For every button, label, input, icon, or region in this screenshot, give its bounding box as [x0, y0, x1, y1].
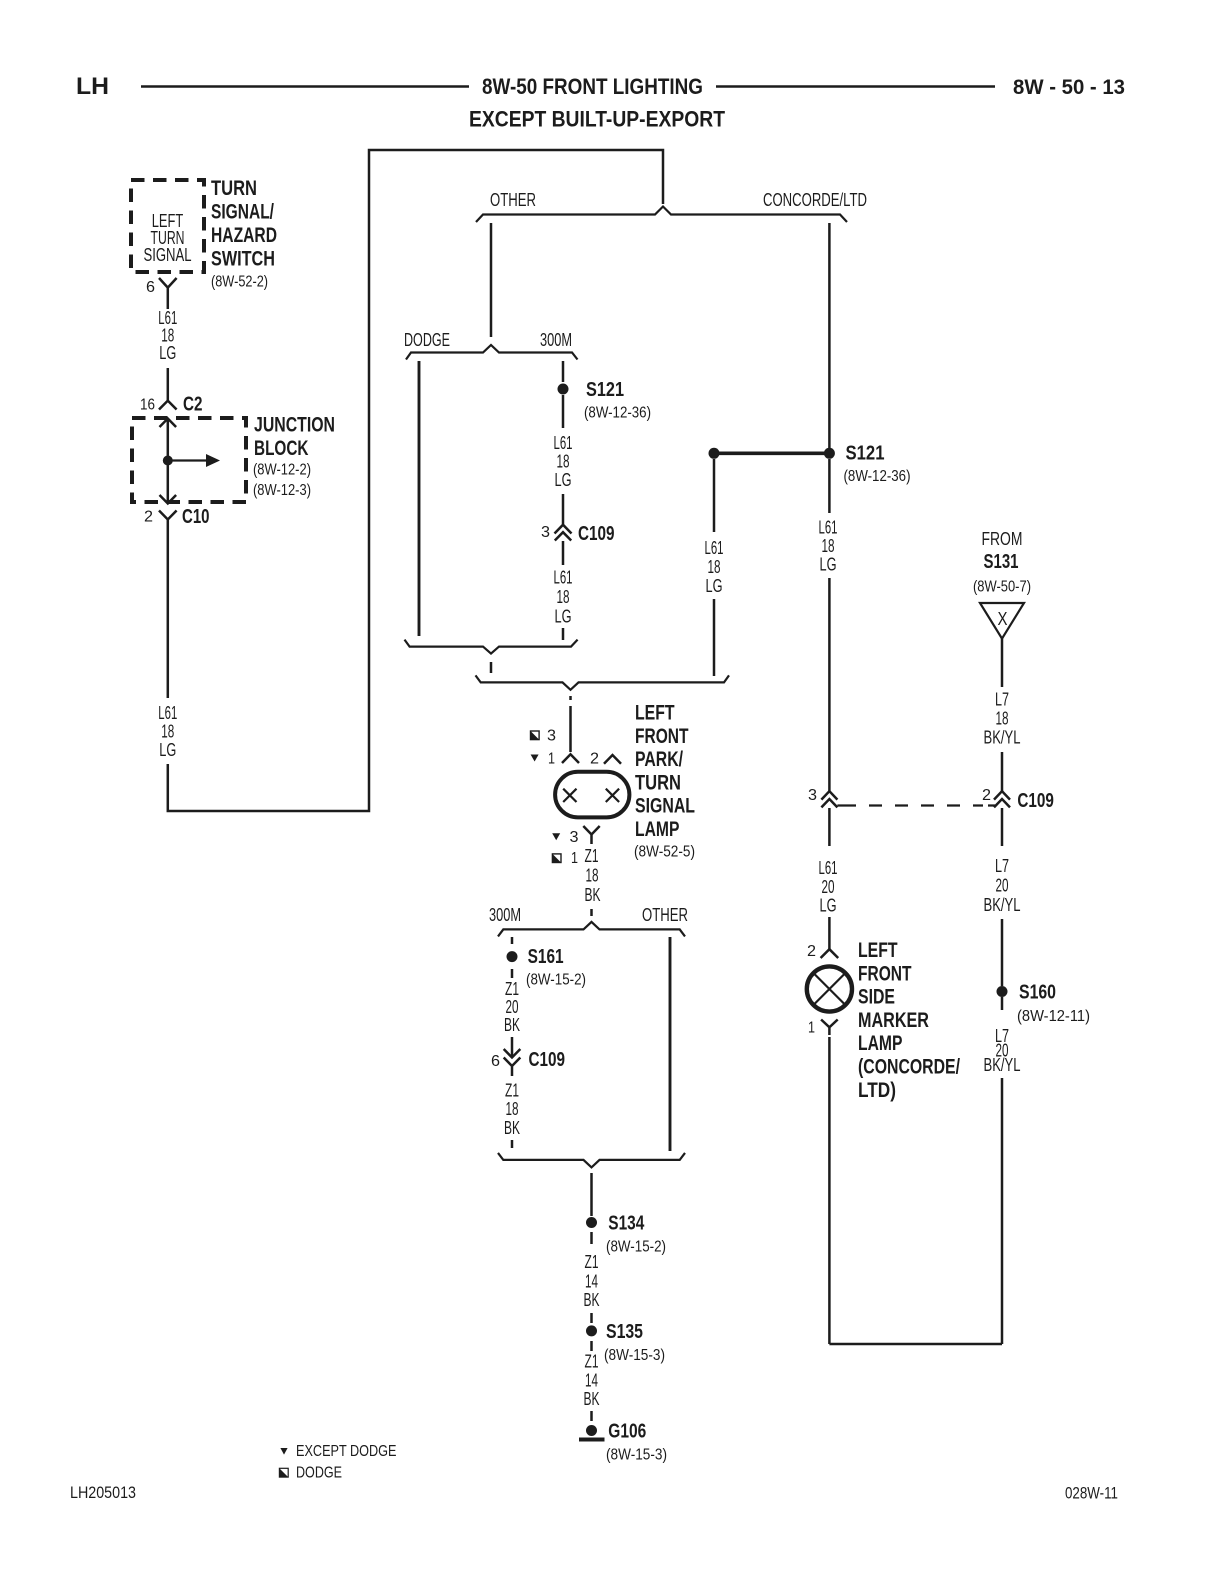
svg-text:FRONT: FRONT — [858, 962, 912, 985]
svg-text:14: 14 — [585, 1272, 598, 1292]
wire to S160 — [1001, 919, 1004, 986]
wire stub below pin 6 — [167, 300, 170, 309]
svg-text:HAZARD: HAZARD — [211, 224, 277, 247]
svg-text:EXCEPT BUILT-UP-EXPORT: EXCEPT BUILT-UP-EXPORT — [469, 107, 725, 132]
svg-text:X: X — [998, 609, 1008, 629]
junction block internal bus wire — [167, 419, 170, 501]
park/turn lamp body stadium — [555, 772, 629, 818]
svg-text:LG: LG — [820, 896, 837, 916]
svg-text:S161: S161 — [528, 946, 564, 968]
wire OTHER branch — [490, 223, 493, 337]
svg-text:028W-11: 028W-11 — [1065, 1484, 1118, 1503]
svg-text:6: 6 — [491, 1053, 500, 1070]
svg-text:SIDE: SIDE — [858, 986, 895, 1009]
svg-text:(8W-15-2): (8W-15-2) — [606, 1239, 666, 1256]
svg-text:(8W-12-36): (8W-12-36) — [584, 405, 651, 422]
svg-text:20: 20 — [822, 877, 835, 897]
fork brace split DODGE / 300M — [406, 345, 578, 360]
svg-text:C109: C109 — [529, 1049, 566, 1071]
svg-text:S160: S160 — [1019, 982, 1056, 1004]
svg-text:LEFT: LEFT — [858, 939, 898, 962]
svg-text:LH205013: LH205013 — [70, 1483, 136, 1502]
splice S121 dot (300M) — [558, 384, 569, 395]
svg-text:18: 18 — [708, 557, 721, 577]
wire dash 300M leg — [511, 937, 514, 944]
svg-text:3: 3 — [808, 787, 817, 804]
ground G106 symbol — [579, 1425, 605, 1440]
svg-text:TURN: TURN — [211, 177, 257, 200]
svg-text:L61: L61 — [819, 518, 838, 538]
svg-text:BK: BK — [504, 1118, 520, 1138]
svg-text:(8W-15-3): (8W-15-3) — [606, 1447, 667, 1464]
svg-text:L7: L7 — [995, 690, 1009, 710]
svg-text:LAMP: LAMP — [635, 818, 679, 841]
svg-text:TURN: TURN — [635, 771, 681, 794]
svg-text:C10: C10 — [182, 506, 210, 528]
wire to C109 — [562, 494, 565, 524]
wire dash below S161 — [511, 969, 514, 978]
svg-text:G106: G106 — [608, 1421, 646, 1443]
svg-text:LG: LG — [820, 555, 837, 575]
wire segment to C2 — [167, 368, 170, 400]
svg-text:(CONCORDE/: (CONCORDE/ — [858, 1056, 960, 1079]
svg-text:8W-50 FRONT LIGHTING: 8W-50 FRONT LIGHTING — [482, 74, 703, 99]
wire down to bottom run — [1001, 1078, 1004, 1344]
svg-text:3: 3 — [541, 524, 550, 541]
wire long run to C109 — [828, 578, 831, 791]
svg-text:LEFT: LEFT — [635, 702, 675, 725]
header rule right — [716, 85, 995, 88]
svg-text:BK: BK — [585, 885, 601, 905]
wire dash above brace — [562, 628, 565, 640]
svg-text:LAMP: LAMP — [858, 1032, 902, 1055]
connector C109 left double chevron — [821, 791, 837, 807]
wire dash below S135 — [590, 1341, 593, 1351]
wire dash below lamp — [590, 909, 593, 916]
park/turn lamp filament X right — [606, 789, 619, 802]
svg-text:16: 16 — [140, 397, 155, 414]
side marker lamp filament X — [813, 973, 845, 1005]
pin symbol except-dodge triangle (bottom pin 3) — [552, 833, 560, 840]
header rule left — [141, 85, 469, 88]
wire OTHER leg (lower) — [669, 937, 672, 1151]
svg-text:300M: 300M — [489, 905, 521, 925]
junction block dashed box — [132, 418, 246, 502]
off-page connector triangle — [980, 603, 1024, 639]
legend dodge square — [279, 1468, 288, 1477]
side marker lamp bulb — [807, 966, 852, 1011]
wire dash below S160 — [1001, 997, 1004, 1010]
svg-text:LH: LH — [76, 73, 109, 100]
brace gather DODGE + 300M — [405, 640, 578, 654]
brace gather group + S121 leg — [476, 675, 730, 689]
svg-text:LTD): LTD) — [858, 1079, 896, 1102]
svg-text:18: 18 — [557, 587, 570, 607]
svg-text:LG: LG — [159, 740, 176, 760]
connector C109 dashed tie line — [837, 804, 995, 806]
wire CONCORDE branch upper — [828, 223, 831, 448]
side marker pin 1 Y — [821, 1020, 838, 1036]
svg-text:1: 1 — [808, 1020, 815, 1037]
wire feed to lamp pin 1 — [569, 696, 572, 752]
svg-text:1: 1 — [571, 850, 578, 867]
junction block feed arrow — [206, 454, 220, 467]
svg-text:18: 18 — [996, 709, 1009, 729]
park/turn lamp pin 3 Y — [583, 826, 599, 844]
wire to C109 right — [1001, 752, 1004, 791]
svg-text:Z1: Z1 — [505, 1081, 519, 1101]
svg-text:S135: S135 — [606, 1321, 643, 1343]
svg-text:8W - 50 - 13: 8W - 50 - 13 — [1013, 76, 1125, 99]
svg-text:LG: LG — [555, 470, 572, 490]
svg-text:6: 6 — [146, 279, 155, 296]
park/turn lamp pin 2 chevron — [604, 755, 621, 764]
svg-text:18: 18 — [822, 536, 835, 556]
wire to lamp pin 2 — [828, 917, 831, 949]
pin 6 connector Y — [159, 278, 177, 300]
svg-text:SWITCH: SWITCH — [211, 248, 275, 271]
svg-text:(8W-12-11): (8W-12-11) — [1017, 1008, 1090, 1025]
svg-text:LG: LG — [706, 576, 723, 596]
svg-text:(8W-15-2): (8W-15-2) — [526, 972, 586, 989]
svg-text:DODGE: DODGE — [296, 1465, 342, 1482]
svg-text:(8W-12-2): (8W-12-2) — [253, 462, 311, 479]
wire below C109 left — [828, 808, 831, 846]
fork brace split 300M / OTHER — [498, 922, 685, 937]
svg-text:2: 2 — [590, 751, 599, 768]
wire from side marker pin 1 down — [828, 1037, 831, 1344]
wire dash below S134 — [590, 1232, 593, 1244]
svg-text:BK/YL: BK/YL — [984, 728, 1021, 748]
svg-text:L61: L61 — [554, 568, 573, 588]
splice S121 right dot — [824, 448, 835, 459]
wire from C10 down — [167, 530, 170, 698]
wire feed to S134 — [590, 1173, 593, 1216]
svg-text:L61: L61 — [158, 703, 177, 723]
connector C109 lower double chevron down — [504, 1049, 521, 1076]
svg-text:OTHER: OTHER — [490, 190, 536, 210]
svg-text:(8W-12-3): (8W-12-3) — [253, 482, 311, 499]
wire from S121 left dot down — [713, 459, 716, 532]
svg-text:18: 18 — [557, 452, 570, 472]
wire below S121 — [562, 395, 565, 428]
svg-text:1: 1 — [548, 751, 555, 768]
svg-text:LG: LG — [555, 607, 572, 627]
svg-text:BK: BK — [584, 1389, 600, 1409]
svg-text:MARKER: MARKER — [858, 1009, 929, 1032]
svg-text:OTHER: OTHER — [642, 905, 688, 925]
pin symbol except-dodge triangle (top pin 1) — [531, 755, 539, 762]
svg-text:C109: C109 — [578, 523, 615, 545]
svg-text:JUNCTION: JUNCTION — [254, 414, 335, 437]
svg-text:300M: 300M — [540, 330, 572, 350]
splice S121 link wire — [714, 451, 829, 455]
switch left-turn-signal dashed box — [131, 180, 204, 272]
svg-text:BK: BK — [504, 1015, 520, 1035]
park/turn lamp filament X left — [563, 789, 576, 802]
svg-text:18: 18 — [161, 722, 174, 742]
junction block junction dot — [163, 456, 173, 466]
wire continues to brace — [713, 599, 716, 676]
svg-text:14: 14 — [585, 1371, 598, 1391]
splice S160 dot — [997, 986, 1008, 997]
wire dash to ground — [590, 1411, 593, 1421]
wire below triangle — [1001, 639, 1004, 687]
svg-text:2: 2 — [807, 943, 816, 960]
svg-text:C2: C2 — [183, 394, 203, 416]
svg-text:2: 2 — [982, 787, 991, 804]
svg-text:3: 3 — [547, 728, 556, 745]
svg-text:20: 20 — [506, 997, 519, 1017]
splice S134 dot — [586, 1217, 597, 1228]
svg-text:L61: L61 — [554, 433, 573, 453]
svg-text:DODGE: DODGE — [404, 330, 450, 350]
svg-text:(8W-52-5): (8W-52-5) — [634, 844, 695, 861]
splice S121 left dot — [709, 448, 720, 459]
wire loop down right up and across to fork — [168, 150, 663, 811]
svg-text:L61: L61 — [705, 538, 724, 558]
junction block top arrowhead — [160, 419, 177, 428]
wire below C109 — [562, 541, 565, 565]
svg-text:(8W-52-2): (8W-52-2) — [211, 274, 268, 291]
svg-text:S121: S121 — [846, 443, 885, 465]
svg-text:2: 2 — [144, 509, 153, 526]
pin symbol dodge square (bottom pin 1) — [552, 854, 561, 863]
svg-text:Z1: Z1 — [585, 846, 599, 866]
brace gather 300M + OTHER — [498, 1153, 685, 1168]
wire dash below brace — [490, 662, 493, 673]
wire 300M branch upper — [562, 361, 565, 382]
svg-text:Z1: Z1 — [585, 1352, 599, 1372]
wire bottom run — [829, 1343, 1002, 1346]
svg-text:BLOCK: BLOCK — [254, 437, 309, 460]
wire to C109 lower — [511, 1037, 514, 1057]
svg-text:3: 3 — [570, 829, 579, 846]
park/turn lamp pin 1 chevron — [562, 754, 579, 763]
svg-text:FROM: FROM — [982, 529, 1023, 549]
svg-text:FRONT: FRONT — [635, 725, 689, 748]
wire below C109 right — [1001, 808, 1004, 846]
connector C10 Y — [159, 511, 177, 531]
svg-text:SIGNAL: SIGNAL — [635, 795, 695, 818]
svg-text:(8W-15-3): (8W-15-3) — [604, 1347, 665, 1364]
legend except-dodge triangle — [280, 1448, 287, 1455]
svg-text:S134: S134 — [608, 1213, 645, 1235]
svg-text:L7: L7 — [995, 856, 1009, 876]
svg-text:BK: BK — [584, 1290, 600, 1310]
wire below S121 right dot — [828, 459, 831, 513]
junction block bottom arrowhead — [160, 495, 177, 504]
connector C2 chevron — [159, 401, 177, 410]
pin symbol dodge square (top pin 3) — [531, 731, 540, 740]
wire dash to S135 — [590, 1313, 593, 1323]
wire DODGE branch — [418, 361, 421, 636]
svg-text:(8W-12-36): (8W-12-36) — [844, 468, 911, 485]
svg-text:SIGNAL: SIGNAL — [144, 245, 192, 265]
wire dash above lower brace — [511, 1140, 514, 1148]
svg-text:EXCEPT DODGE: EXCEPT DODGE — [296, 1443, 397, 1460]
splice S161 dot — [507, 951, 518, 962]
svg-text:BK/YL: BK/YL — [984, 1055, 1021, 1075]
svg-text:LG: LG — [159, 343, 176, 363]
junction block feed stub — [168, 459, 206, 461]
connector C109 right double chevron — [994, 791, 1010, 807]
svg-text:Z1: Z1 — [585, 1252, 599, 1272]
svg-text:S121: S121 — [586, 379, 624, 401]
svg-text:18: 18 — [506, 1099, 519, 1119]
side marker pin 2 chevron — [821, 949, 839, 958]
svg-text:PARK/: PARK/ — [635, 748, 683, 771]
connector C109 double chevron up — [555, 525, 572, 541]
svg-text:20: 20 — [996, 876, 1009, 896]
svg-text:18: 18 — [586, 866, 599, 886]
svg-text:L61: L61 — [819, 858, 838, 878]
svg-text:Z1: Z1 — [505, 979, 519, 999]
svg-text:SIGNAL/: SIGNAL/ — [211, 201, 274, 224]
fork brace split OTHER / CONCORDE-LTD — [476, 207, 847, 223]
svg-text:CONCORDE/LTD: CONCORDE/LTD — [763, 190, 867, 210]
splice S135 dot — [586, 1325, 597, 1336]
svg-text:(8W-50-7): (8W-50-7) — [973, 579, 1031, 596]
svg-text:C109: C109 — [1017, 790, 1054, 812]
svg-text:S131: S131 — [984, 551, 1019, 573]
svg-text:BK/YL: BK/YL — [984, 895, 1021, 915]
